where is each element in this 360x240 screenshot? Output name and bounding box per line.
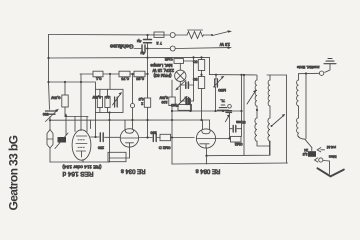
- label 4μ: [136, 39, 141, 44]
- node junction (147.5,74): [146, 73, 148, 75]
- node junction (190.5,111): [189, 110, 191, 112]
- terminal jack J2: [170, 46, 175, 51]
- label 3,5: [303, 152, 308, 156]
- svg-text:1M5: 1M5: [164, 57, 173, 62]
- resistor R1 (box on top bus): [154, 32, 164, 37]
- svg-text:RE 084 s: RE 084 s: [196, 168, 221, 174]
- label 0,35: [135, 77, 144, 82]
- wire x=110: [109, 74, 111, 89]
- svg-text:(RE 114 oder 134): (RE 114 oder 134): [62, 164, 102, 170]
- switch tap arrow T1 primary: [247, 90, 256, 104]
- node junction (132.5,74): [131, 73, 133, 75]
- resistor R2 (vertical box): [62, 95, 68, 107]
- svg-text:100: 100: [162, 100, 168, 104]
- svg-text:zusätzl. Erde: zusätzl. Erde: [297, 65, 320, 70]
- svg-text:4μ: 4μ: [136, 39, 141, 44]
- svg-text:24: 24: [304, 148, 308, 152]
- svg-text:7L: 7L: [220, 99, 225, 104]
- wire: [176, 34, 187, 36]
- svg-text:rot-bl: rot-bl: [327, 145, 336, 150]
- node junction (80,82): [80, 81, 82, 83]
- label RES 164 d: [62, 170, 93, 177]
- capacitor C13 (grid, horizontal plates): [226, 111, 232, 113]
- resistor R11 (vertical box): [198, 60, 204, 71]
- svg-text:4μ: 4μ: [140, 51, 145, 56]
- wire drop x=65: [64, 82, 66, 95]
- resistor R9 (box): [178, 105, 192, 111]
- node junction (257,110): [256, 109, 258, 111]
- resistor R10 above lamp: [174, 59, 184, 64]
- node terminal circle: [228, 105, 232, 109]
- switch S1 (mains): [211, 30, 232, 36]
- node junction (241.5,74.8): [240, 74, 242, 76]
- wire: [146, 48, 170, 50]
- wire y=155.5: [207, 141, 270, 156]
- transformer T1 winding secondary: [268, 75, 270, 155]
- label 0M2: [234, 142, 243, 147]
- arrow variable (antenna cap): [46, 109, 59, 122]
- node junction (132.5,120): [131, 119, 133, 121]
- resistor row y=74 wire: [80, 73, 148, 75]
- node junction (110,74): [109, 73, 111, 75]
- label 0,5 100: [159, 96, 168, 105]
- label M50: [217, 88, 226, 93]
- label Gehäuse: [110, 43, 134, 49]
- capacitor C-ant (plates on spine): [46, 111, 56, 114]
- capacitor C5 trimmer: [113, 92, 123, 107]
- capacitor 4μ chassis: [142, 45, 145, 52]
- node junction (216,74.7): [215, 74, 217, 76]
- ground symbol (top right): [324, 59, 336, 73]
- wire left spine x=48.5..50: [49, 35, 51, 163]
- svg-text:0,5: 0,5: [139, 97, 144, 101]
- label 0,1: [95, 77, 101, 82]
- wire right rail x=286.5: [286, 75, 288, 163]
- node junction (147.5,137.5): [146, 136, 148, 138]
- node junction (201.5,57.4): [200, 56, 202, 58]
- capacitor C3 (tubular box): [97, 89, 102, 112]
- bus y=82: [49, 82, 96, 89]
- wire anode tube2 y=137.5: [139, 137, 152, 139]
- arrow variable (grid cap): [225, 114, 230, 122]
- node junction (201.5,120): [200, 119, 202, 121]
- svg-text:(PRM 60): (PRM 60): [153, 73, 172, 78]
- wire top bus y=34.5: [49, 34, 170, 37]
- wire x=172 column: [171, 80, 173, 164]
- svg-text:50: 50: [192, 60, 197, 65]
- tube U1 internals: [76, 136, 87, 157]
- tube U2 RE034 (circle): [120, 129, 138, 147]
- wire arrow to mains: [176, 47, 232, 50]
- capacitor C6 coupling: [91, 133, 120, 142]
- wire stub: [134, 48, 141, 50]
- svg-text:0,5W: 0,5W: [159, 96, 168, 100]
- switch arm speaker: [305, 139, 312, 152]
- node junction (306,73.5): [305, 72, 307, 74]
- wire bottom left y=162: [50, 161, 110, 163]
- wire x=201.5 column: [201, 57, 203, 120]
- text block mains lamp spec: [150, 63, 174, 78]
- svg-text:0,5W: 0,5W: [92, 95, 101, 99]
- node junction (48.5,58): [47, 57, 49, 59]
- label 10: [106, 95, 110, 99]
- svg-text:0,75: 0,75: [120, 77, 129, 82]
- wire corner left: [90, 120, 92, 129]
- svg-text:13 W: 13 W: [219, 42, 230, 47]
- bus y=120: [49, 119, 210, 121]
- node junction (147.5,35): [146, 34, 148, 36]
- label 13 W: [219, 42, 230, 47]
- terminal jack J3: [319, 71, 323, 75]
- resistor R7 grid leak: [160, 134, 171, 140]
- capacitor C11 trimmer: [214, 75, 225, 87]
- label 4μ: [140, 51, 145, 56]
- resistor R6 (box at filament line): [108, 152, 126, 161]
- node junction (109.5,112.5): [108, 111, 110, 113]
- label 5000: [43, 112, 49, 116]
- label 0M2 D: [159, 146, 171, 151]
- wire x=132.5 grid cap tube2: [132, 74, 134, 130]
- label RE 084 s: [196, 168, 221, 174]
- svg-text:RE 034 s: RE 034 s: [121, 168, 146, 174]
- wire top secondary: [267, 74, 287, 76]
- wire: [190, 100, 194, 102]
- node junction (65,82): [64, 81, 66, 83]
- svg-text:500: 500: [43, 112, 49, 116]
- node junction (172,137.5): [171, 136, 173, 138]
- wire: [180, 61, 193, 70]
- svg-text:50: 50: [192, 77, 197, 82]
- label (RE 114 oder 134): [62, 164, 102, 170]
- node junction (109.5,120): [108, 119, 110, 121]
- box screen enclosure: [96, 89, 124, 137]
- capacitor C4 (tubular box): [105, 89, 110, 112]
- tube U3 RE084 (circle): [196, 129, 215, 148]
- label 7L: [220, 99, 225, 104]
- tube U3 internals: [197, 131, 216, 148]
- svg-text:3,5: 3,5: [303, 152, 308, 156]
- svg-text:RES 164 d: RES 164 d: [62, 170, 93, 177]
- capacitor C9: [186, 82, 189, 88]
- contact lower (circle): [315, 158, 323, 162]
- node junction (48.5,82): [47, 81, 49, 83]
- wire y=164: [172, 163, 288, 164]
- svg-text:7 2: 7 2: [156, 41, 162, 46]
- svg-text:10: 10: [106, 95, 110, 99]
- svg-text:2: 2: [141, 102, 143, 106]
- lamp dial (circle with X): [175, 70, 186, 81]
- wire: [171, 137, 195, 139]
- wire tube3 top leads: [203, 120, 210, 130]
- arrow variable (lamp): [175, 80, 186, 90]
- svg-text:100: 100: [171, 103, 177, 107]
- wire RC rails: [230, 75, 242, 139]
- arrow variable: [176, 97, 187, 108]
- label 0,75: [120, 77, 129, 82]
- transformer T1 winding primary: [255, 75, 270, 146]
- wire to antenna: [323, 161, 330, 175]
- label 50: [51, 96, 61, 101]
- resistor R-heiz (dark box with arrow): [55, 133, 68, 149]
- node junction (229.5,137.7): [228, 137, 230, 139]
- label rot: [327, 145, 336, 150]
- arrow variable (grid bias): [179, 96, 188, 105]
- wire: [204, 34, 212, 36]
- capacitor C10: [186, 98, 189, 105]
- label RE 034 s: [121, 168, 146, 174]
- label 50cm: [236, 120, 245, 124]
- wire speaker top y=73.5: [299, 72, 320, 74]
- svg-text:0M2 D: 0M2 D: [159, 146, 171, 151]
- wire x=109.5 down: [109, 113, 111, 163]
- transformer T1 left rail: [243, 75, 245, 155]
- tube U2 internals: [120, 130, 138, 147]
- node junction (172,120): [171, 119, 173, 121]
- node junction (244,75): [243, 74, 245, 76]
- svg-text:0,1: 0,1: [95, 77, 101, 82]
- svg-text:0,35: 0,35: [135, 77, 144, 82]
- wire return x=306: [305, 74, 307, 139]
- arrow tap wire x=66: [65, 113, 68, 135]
- node junction (147.5,48.5): [146, 47, 148, 49]
- label 50: [192, 60, 197, 65]
- label blau: [329, 155, 337, 160]
- node junction (201.5,74.7): [200, 74, 202, 76]
- svg-text:200: 200: [151, 131, 157, 135]
- node junction (223,111): [222, 110, 224, 112]
- bus y=75: [210, 74, 257, 76]
- svg-text:Met. Lampe: Met. Lampe: [150, 63, 173, 68]
- wire x=80 tube1 anode: [80, 74, 82, 131]
- caption Geatron 33 bG: [7, 135, 21, 210]
- bus y=58: [49, 57, 210, 74]
- capacitor C7 coupling: [153, 133, 156, 142]
- capacitor C1 4μ (on vertical line): [144, 40, 152, 43]
- svg-text:M50: M50: [217, 88, 226, 93]
- tube U1 RES164 (oval): [72, 130, 91, 160]
- label 0,5 2: [139, 97, 144, 106]
- wire vertical x=147.5: [147, 35, 149, 138]
- resistor R14 (vertical box): [144, 98, 150, 107]
- label 72: [156, 41, 162, 46]
- wire tube2 top lead: [124, 120, 126, 130]
- node junction (147.5,120): [146, 119, 148, 121]
- svg-text:blau: blau: [329, 155, 337, 160]
- label 24: [304, 148, 308, 152]
- label 200: [151, 131, 157, 135]
- antenna symbol: [318, 168, 344, 176]
- capacitor C8 (dark): [187, 99, 190, 105]
- resistor R3 box: [93, 71, 103, 77]
- wire: [65, 107, 88, 117]
- resistor R-netz (zigzag): [187, 30, 204, 39]
- svg-text:220V, 15 W: 220V, 15 W: [152, 68, 174, 73]
- node junction (172,111): [171, 110, 173, 112]
- ground symbol (mid): [218, 105, 229, 111]
- label 100: [171, 103, 177, 107]
- resistor R8 (vertical box): [169, 97, 175, 106]
- wire anode tube3: [215, 138, 229, 140]
- wire: [157, 137, 160, 139]
- wire: [190, 84, 194, 86]
- wire lamp node down: [180, 85, 185, 101]
- svg-text:Geatron 33 bG: Geatron 33 bG: [7, 135, 21, 210]
- switch tap arrow T1 mid: [271, 114, 286, 127]
- speaker armature (dark block): [308, 151, 316, 157]
- coil L-spk (speaker winding): [297, 74, 306, 140]
- wire trimmer to grid bus: [214, 87, 216, 112]
- wire tube1 leads: [75, 117, 87, 163]
- resistor R13: [231, 136, 242, 142]
- wire x=190.5: [190, 99, 192, 111]
- wire tube3 bottom lead: [206, 148, 208, 164]
- label 50: [192, 77, 197, 82]
- svg-text:Gehäuse: Gehäuse: [110, 43, 134, 49]
- node grid-cap circle tube2: [130, 104, 134, 108]
- svg-text:0M2: 0M2: [234, 142, 243, 147]
- wire tube2 bottom lead: [110, 148, 130, 158]
- coil L-ant (spindle): [47, 130, 53, 149]
- svg-text:0,5W: 0,5W: [51, 96, 61, 101]
- lamp label 1M5: [164, 57, 173, 62]
- node junction (208,155.7): [205, 155, 207, 157]
- wire y=111: [172, 110, 243, 112]
- resistor R12 (vertical box): [198, 77, 204, 89]
- svg-text:250: 250: [98, 146, 104, 150]
- wire lamp bottom: [180, 82, 184, 86]
- label 250: [98, 146, 104, 150]
- contact fork upper: [317, 148, 324, 152]
- label zusätzl. Erde: [297, 65, 320, 70]
- label 0,5: [92, 95, 101, 99]
- resistor R4 box: [119, 71, 130, 77]
- capacitor C12: [230, 126, 242, 133]
- node junction (147.5,57.7): [146, 57, 148, 59]
- resistor R5 box: [134, 71, 145, 77]
- terminal jack J1: [170, 33, 175, 38]
- wire column x=193.5: [192, 56, 194, 101]
